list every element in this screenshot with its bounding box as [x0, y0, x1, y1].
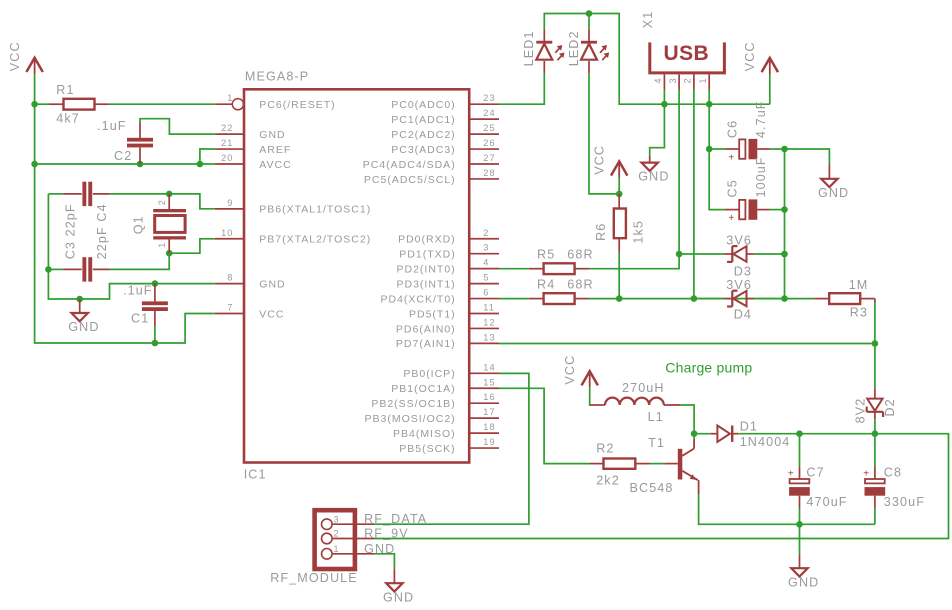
junction C7 top: [796, 430, 803, 437]
IC pin 14 PB0(ICP): [469, 372, 499, 374]
power flag VCC (left rail): [26, 58, 42, 72]
IC pin 1 PC6(/RESET): [215, 103, 232, 105]
svg-text:18: 18: [483, 422, 495, 432]
wire R6 bottom to D- line: [618, 253, 620, 299]
IC pin 25 PC2(ADC2): [469, 133, 499, 135]
svg-text:8V2: 8V2: [853, 398, 867, 424]
RF_MODULE pin 3: [322, 519, 333, 530]
RF_MODULE pin 2: [322, 533, 333, 544]
svg-text:VCC: VCC: [8, 41, 22, 71]
svg-text:2: 2: [683, 78, 693, 84]
IC pin 3 PD1(TXD): [469, 253, 499, 255]
junction R6-D4 line: [616, 295, 623, 302]
ground symbol (RF module): [393, 569, 395, 583]
svg-text:1k5: 1k5: [631, 220, 645, 244]
svg-text:R6: R6: [594, 223, 608, 241]
svg-text:C7: C7: [806, 466, 824, 480]
svg-text:MEGA8-P: MEGA8-P: [245, 70, 309, 84]
junction C6 left: [706, 146, 713, 153]
wire USB pin 4 to bus: [663, 90, 665, 105]
svg-text:21: 21: [221, 138, 233, 148]
IC pin 17 PB3(MOSI/OC2): [469, 417, 499, 419]
svg-text:PC6(/RESET): PC6(/RESET): [259, 99, 335, 111]
wire LED2 bottom to R6 VCC node: [589, 74, 619, 194]
inductor L1 270uH: [590, 404, 605, 406]
svg-text:4.7uF: 4.7uF: [754, 100, 768, 138]
wire R2 to T1 base: [650, 463, 664, 465]
svg-text:GND: GND: [818, 186, 849, 200]
junction AREF branch: [197, 161, 204, 168]
IC pin 15 PB1(OC1A): [469, 387, 499, 389]
svg-text:270uH: 270uH: [622, 381, 665, 395]
IC pin 21 AREF: [215, 148, 244, 150]
svg-text:7: 7: [227, 303, 233, 313]
IC pin 28 PC5(ADC5/SCL): [469, 178, 499, 180]
wire IC pin 23 to LED1: [499, 74, 544, 105]
svg-text:C3 22pF: C3 22pF: [63, 203, 77, 259]
resistor R3 1M: [785, 298, 815, 300]
svg-text:PB5(SCK): PB5(SCK): [399, 443, 455, 455]
svg-text:GND: GND: [259, 129, 285, 141]
wire VCC to R6: [618, 178, 620, 194]
wire L1 to collector node: [680, 405, 694, 434]
svg-text:Charge pump: Charge pump: [665, 360, 752, 376]
junction USB pin1 VCC: [706, 101, 713, 108]
svg-text:PC5(ADC5/SCL): PC5(ADC5/SCL): [364, 174, 456, 186]
junction C3 left: [45, 266, 52, 273]
wire R3 down to PD7 net: [874, 302, 876, 344]
IC pin 7 VCC: [215, 313, 244, 315]
svg-text:22: 22: [221, 123, 233, 133]
wire AREF branch to pin 21: [200, 149, 215, 164]
svg-text:25: 25: [483, 123, 495, 133]
wire C3 to crystal bottom: [110, 253, 170, 269]
IC pin 10 PB7(XTAL2/TOSC2): [215, 238, 244, 240]
svg-text:+: +: [728, 153, 734, 164]
svg-text:GND: GND: [383, 590, 414, 604]
IC pin 4 PD2(INT0): [469, 268, 499, 270]
wire IC pin 4 to R5: [499, 268, 529, 270]
svg-text:2k2: 2k2: [596, 473, 620, 487]
wire VCC to L1: [589, 387, 592, 405]
junction C2-AVCC: [137, 161, 144, 168]
svg-text:PB3(MOSI/OC2): PB3(MOSI/OC2): [365, 413, 456, 425]
svg-text:1M: 1M: [849, 278, 869, 292]
connector X1 USB: [650, 42, 725, 73]
junction C6 right: [781, 146, 788, 153]
USB pin 1: [708, 74, 710, 89]
wire C2 top to IC pin 22 (GND): [140, 119, 215, 134]
ground symbol (charge pump): [799, 554, 801, 568]
svg-text:28: 28: [483, 168, 495, 178]
USB pin 4: [663, 74, 665, 89]
capacitor C4: [48, 193, 63, 195]
resistor R6 1k5: [618, 194, 620, 209]
svg-text:1: 1: [698, 78, 708, 84]
junction D3 left: [676, 251, 683, 258]
svg-text:PC1(ADC1): PC1(ADC1): [391, 114, 455, 126]
svg-text:VCC: VCC: [563, 355, 577, 385]
wire USB pin 2 (D-) down: [693, 90, 695, 299]
wire D1 line to D2 bottom: [800, 433, 875, 435]
wire IC pin 6 to R4: [499, 298, 529, 300]
zener diode D4 3V6: [694, 298, 724, 300]
junction C1 top: [152, 280, 159, 287]
wire USB pin 1 (VBUS): [708, 90, 710, 105]
svg-text:20: 20: [221, 153, 233, 163]
wire C8 bottom rail: [800, 523, 875, 525]
junction C7 bottom: [796, 521, 803, 528]
transistor T1 BC548: [664, 463, 678, 465]
IC pin 9 PB6(XTAL1/TOSC1): [215, 208, 244, 210]
svg-text:C1: C1: [131, 312, 149, 326]
svg-text:PD0(RXD): PD0(RXD): [398, 234, 456, 246]
svg-text:PC4(ADC4/SDA): PC4(ADC4/SDA): [363, 159, 456, 171]
ground symbol (right top): [828, 164, 830, 179]
svg-text:D2: D2: [883, 398, 897, 416]
svg-text:PB4(MISO): PB4(MISO): [393, 428, 456, 440]
IC pin 12 PD6(AIN0): [469, 327, 499, 329]
wire crystal net left rail: [48, 194, 214, 299]
wire C5 right to vertical rail: [770, 209, 785, 211]
svg-text:Q1: Q1: [132, 215, 146, 234]
svg-text:C5: C5: [726, 179, 740, 197]
svg-text:C2: C2: [114, 149, 132, 163]
svg-text:PD1(TXD): PD1(TXD): [399, 249, 455, 261]
wire LED1 top to top rail: [544, 14, 770, 105]
IC pin 22 GND: [215, 133, 244, 135]
IC U1 ATmega8 body: [244, 89, 469, 462]
svg-text:68R: 68R: [567, 248, 593, 262]
svg-text:L1: L1: [648, 410, 664, 424]
junction VCC-AVCC: [31, 161, 38, 168]
svg-text:AREF: AREF: [259, 144, 291, 156]
svg-text:24: 24: [483, 108, 495, 118]
svg-text:GND: GND: [788, 575, 819, 589]
svg-text:R5: R5: [537, 248, 555, 262]
svg-text:D1: D1: [740, 420, 758, 434]
svg-text:470uF: 470uF: [806, 495, 847, 509]
junction USB pin4: [661, 101, 668, 108]
svg-text:14: 14: [483, 362, 495, 372]
svg-text:VCC: VCC: [743, 41, 757, 71]
svg-text:D4: D4: [734, 307, 752, 321]
IC pin 8 GND: [215, 283, 244, 285]
svg-text:PD4(XCK/T0): PD4(XCK/T0): [381, 293, 456, 305]
svg-text:9: 9: [227, 198, 233, 208]
IC pin 26 PC3(ADC3): [469, 148, 499, 150]
svg-text:VCC: VCC: [259, 308, 284, 320]
svg-text:R2: R2: [596, 442, 614, 456]
svg-text:8: 8: [227, 273, 233, 283]
capacitor C8 330uF: [874, 434, 876, 467]
svg-text:1: 1: [157, 242, 167, 248]
capacitor C1: [154, 284, 156, 302]
wire down to D2: [874, 344, 876, 389]
svg-text:GND: GND: [638, 170, 669, 184]
svg-text:6: 6: [483, 288, 489, 298]
USB pin 2: [693, 74, 695, 89]
svg-text:23: 23: [483, 93, 495, 103]
LED LED2: [588, 14, 590, 30]
junction PD7-R3-D2: [872, 340, 879, 347]
svg-text:PD2(INT0): PD2(INT0): [397, 263, 456, 275]
resistor R1: [49, 103, 64, 105]
svg-text:RF_9V: RF_9V: [364, 527, 409, 541]
svg-text:68R: 68R: [567, 277, 593, 291]
svg-text:1: 1: [227, 93, 233, 103]
svg-text:GND: GND: [259, 278, 285, 290]
svg-text:330uF: 330uF: [884, 495, 925, 509]
svg-text:RF_MODULE: RF_MODULE: [270, 571, 358, 585]
svg-text:R1: R1: [56, 83, 74, 97]
svg-text:GND: GND: [68, 320, 99, 334]
svg-text:T1: T1: [648, 436, 665, 450]
crystal Q1: [168, 194, 170, 209]
svg-text:PB0(ICP): PB0(ICP): [403, 368, 455, 380]
ground symbol (USB): [649, 156, 651, 163]
junction D3 right: [781, 251, 788, 258]
IC pin 13 PD7(AIN1): [469, 342, 499, 344]
svg-text:D3: D3: [734, 264, 752, 278]
connector RF_MODULE: [315, 510, 355, 569]
svg-text:19: 19: [483, 437, 495, 447]
svg-text:10: 10: [221, 228, 233, 238]
wire R5 to D3: [589, 254, 679, 269]
svg-text:R4: R4: [537, 277, 555, 291]
IC pin 2 PD0(RXD): [469, 238, 499, 240]
svg-text:+: +: [788, 468, 794, 479]
IC pin 16 PB2(SS/OC1B): [469, 402, 499, 404]
svg-text:11: 11: [483, 303, 495, 313]
wire USB pin4 to GND: [650, 104, 665, 156]
svg-text:1: 1: [334, 544, 340, 554]
LED LED1: [543, 61, 545, 74]
wire RF_DATA to IC pin 14: [374, 373, 529, 524]
wire emitter down to bottom rail: [698, 480, 700, 494]
capacitor C2: [139, 122, 141, 138]
junction LED2 top: [586, 10, 593, 17]
junction USB pin2-D4 line: [691, 295, 698, 302]
IC pin 11 PD5(T1): [469, 313, 499, 315]
svg-text:17: 17: [483, 407, 495, 417]
junction D4 right: [781, 295, 788, 302]
svg-text:PB1(OC1A): PB1(OC1A): [391, 383, 455, 395]
svg-text:.1uF: .1uF: [97, 119, 127, 133]
svg-text:100uF: 100uF: [754, 156, 768, 197]
junction collector node: [691, 430, 698, 437]
zener diode D2 8V2: [874, 388, 876, 398]
zener diode D3 3V6: [679, 253, 724, 255]
svg-text:IC1: IC1: [244, 467, 267, 481]
svg-text:+: +: [728, 213, 734, 224]
svg-text:PB7(XTAL2/TOSC2): PB7(XTAL2/TOSC2): [259, 234, 371, 246]
svg-text:2: 2: [483, 228, 489, 238]
capacitor C3: [48, 268, 63, 270]
wire C4 to crystal top: [110, 193, 170, 195]
svg-text:BC548: BC548: [630, 481, 674, 495]
svg-text:PD7(AIN1): PD7(AIN1): [396, 338, 456, 350]
wire collector to node: [693, 434, 695, 439]
wire crystal top to IC pin 9: [169, 194, 215, 209]
svg-text:PC0(ADC0): PC0(ADC0): [391, 99, 455, 111]
junction VCC-R1: [31, 101, 38, 108]
svg-text:4: 4: [653, 78, 663, 84]
junction R6 top: [616, 191, 623, 198]
power flag VCC (USB): [762, 58, 778, 72]
IC pin 23 PC0(ADC0): [469, 103, 499, 105]
svg-text:3V6: 3V6: [726, 233, 752, 247]
capacitor C6 4.7uF: [709, 148, 724, 150]
ground symbol (crystal): [79, 299, 81, 313]
svg-text:22pF C4: 22pF C4: [95, 203, 109, 259]
svg-text:3V6: 3V6: [726, 278, 752, 292]
svg-text:PB6(XTAL1/TOSC1): PB6(XTAL1/TOSC1): [259, 204, 371, 216]
svg-text:13: 13: [483, 332, 495, 342]
svg-text:PC3(ADC3): PC3(ADC3): [391, 144, 455, 156]
wire VBUS down to caps: [709, 104, 724, 209]
svg-text:3: 3: [483, 243, 489, 253]
svg-text:LED2: LED2: [567, 30, 581, 66]
resistor R4 68R: [529, 298, 544, 300]
wire crystal bottom to IC pin 10: [169, 239, 215, 253]
power flag VCC (charge pump): [582, 371, 598, 385]
resistor R2 2k2: [590, 463, 604, 465]
svg-text:15: 15: [483, 377, 495, 387]
RF_MODULE pin 1: [322, 549, 333, 560]
svg-text:27: 27: [483, 153, 495, 163]
svg-text:.1uF: .1uF: [123, 283, 153, 297]
svg-text:12: 12: [483, 317, 495, 327]
svg-text:AVCC: AVCC: [259, 159, 291, 171]
capacitor C5 100uF: [725, 209, 739, 211]
svg-text:C8: C8: [884, 466, 902, 480]
svg-text:PB2(SS/OC1B): PB2(SS/OC1B): [371, 398, 455, 410]
wire to right edge loop: [374, 434, 949, 539]
junction C5 right: [781, 206, 788, 213]
junction crystal bottom: [166, 250, 173, 257]
svg-text:VCC: VCC: [592, 145, 606, 175]
svg-text:2: 2: [334, 529, 340, 539]
svg-text:4k7: 4k7: [56, 111, 80, 125]
USB pin 3: [678, 74, 680, 89]
wire VCC rail to IC pin 7: [35, 74, 215, 343]
svg-text:2: 2: [157, 200, 167, 206]
wire AVCC line: [35, 163, 215, 165]
svg-text:5: 5: [483, 273, 489, 283]
svg-text:16: 16: [483, 392, 495, 402]
IC pin 18 PB4(MISO): [469, 432, 499, 434]
IC pin 5 PD3(INT1): [469, 283, 499, 285]
wire R4 to D4 line: [589, 298, 785, 300]
wire IC pin 15 to R2: [499, 388, 590, 463]
svg-text:LED1: LED1: [522, 30, 536, 66]
wire RF pin1 to GND: [374, 554, 394, 569]
wire C6 to GND: [785, 149, 830, 164]
junction C1 bottom: [152, 340, 159, 347]
svg-text:4: 4: [483, 258, 489, 268]
wire USB pin 3 (D+) down: [678, 90, 680, 255]
svg-text:PC2(ADC2): PC2(ADC2): [391, 129, 455, 141]
wire C6 right to vertical rail: [770, 148, 785, 150]
svg-text:PD3(INT1): PD3(INT1): [397, 278, 456, 290]
svg-text:3: 3: [334, 514, 340, 524]
svg-text:3: 3: [668, 78, 678, 84]
wire VCC to R1: [35, 103, 49, 105]
diode D1 1N4004: [694, 433, 710, 435]
svg-text:1N4004: 1N4004: [740, 435, 791, 449]
svg-text:26: 26: [483, 138, 495, 148]
wire IC pin 13 long net: [499, 343, 875, 345]
svg-text:+: +: [863, 468, 869, 479]
svg-text:X1: X1: [641, 11, 655, 29]
capacitor C7 470uF: [799, 434, 801, 467]
junction D2 bottom / C8 top: [872, 430, 879, 437]
wire C7 bottom to GND: [799, 524, 801, 554]
IC pin 24 PC1(ADC1): [469, 118, 499, 120]
wire R1 to IC pin 1: [109, 103, 215, 105]
IC pin 20 AVCC: [215, 163, 244, 165]
junction crystal top: [166, 191, 173, 198]
resistor R5 68R: [529, 268, 544, 270]
IC pin 27 PC4(ADC4/SDA): [469, 163, 499, 165]
wire right vertical rail (C6-C5-D3-D4): [784, 149, 786, 299]
svg-text:PD5(T1): PD5(T1): [409, 308, 456, 320]
power flag VCC (R6): [611, 161, 627, 175]
svg-text:R3: R3: [850, 305, 868, 319]
svg-text:PD6(AIN0): PD6(AIN0): [396, 323, 456, 335]
IC pin 19 PB5(SCK): [469, 447, 499, 449]
svg-text:USB: USB: [664, 42, 710, 65]
IC pin 6 PD4(XCK/T0): [469, 298, 499, 300]
junction GND stub: [76, 296, 83, 303]
svg-text:C6: C6: [726, 120, 740, 138]
